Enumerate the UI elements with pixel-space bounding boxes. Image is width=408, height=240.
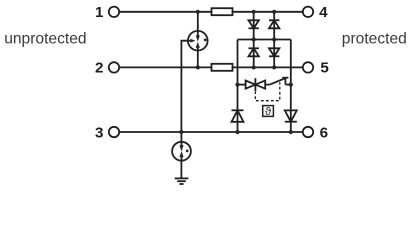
terminal 4 [303, 7, 313, 17]
diode D2 (column A lower, pointing up) [249, 48, 259, 56]
diode D1 (column A upper, pointing down) [249, 20, 259, 28]
gas discharge tube F1 (3-electrode) [188, 31, 208, 51]
resistor R1 [212, 8, 233, 15]
svg-text:6: 6 [320, 124, 328, 141]
svg-text:4: 4 [319, 4, 328, 21]
diode D4 (column B lower, pointing down) [269, 48, 279, 56]
wire diode column B (vertical) [273, 12, 275, 68]
terminal 1 [109, 7, 119, 17]
wire left rail to suppressor V1 [238, 84, 246, 86]
wire row 1 (terminal 1 to terminal 4) [119, 11, 303, 13]
svg-text:unprotected: unprotected [4, 30, 86, 47]
junction row3/F2 [179, 130, 183, 134]
svg-text:5: 5 [320, 60, 329, 77]
thermal element box [263, 106, 274, 117]
gas discharge tube F2 (2-electrode) [172, 142, 191, 161]
svg-text:1: 1 [95, 4, 104, 21]
resistor R2 [212, 64, 233, 71]
wire row 3 (terminal 3 to terminal 6) [119, 131, 303, 133]
junction row2/column A [252, 65, 256, 69]
svg-text:2: 2 [95, 60, 103, 77]
svg-text:ϑ: ϑ [265, 106, 271, 118]
junction row1/column A [252, 10, 256, 14]
wire left rail (mid bar to row 3) [237, 40, 239, 133]
junction mid bar/column B [272, 37, 276, 41]
mechanical linkage (dashed) [255, 82, 279, 101]
wire right rail (mid bar to row 3) [290, 40, 292, 133]
wire gas tube F2 to ground [180, 161, 182, 178]
ground [175, 178, 189, 184]
wire middle bar node [238, 39, 291, 41]
diode D6 (right rail, pointing down) [285, 110, 297, 121]
junction mid bar/column A [252, 37, 256, 41]
junction right rail/S1 [289, 83, 293, 87]
diode D3 (column B upper, pointing up) [269, 20, 279, 28]
wire row 2 (terminal 2 to terminal 5) [119, 66, 303, 68]
svg-text:3: 3 [95, 124, 103, 141]
wire row 1 to gas tube F1 top [197, 12, 199, 31]
terminal 6 [303, 127, 313, 137]
wire gas tube F1 bottom to row 2 [197, 51, 199, 68]
junction row2/F1 [196, 65, 200, 69]
terminal 3 [109, 127, 119, 137]
junction row1/column B [272, 10, 276, 14]
junction row3/right rail [289, 130, 293, 134]
junction row1/F1 [196, 10, 200, 14]
thermal disconnect switch S1 [265, 78, 291, 85]
junction row3/left rail [235, 130, 239, 134]
terminal 2 [109, 62, 119, 72]
bidirectional suppressor V1 (two triangles) [246, 78, 266, 91]
wire row 3 to gas tube F2 [180, 132, 182, 142]
wire F1 third electrode down to row 3 [181, 41, 188, 132]
svg-text:protected: protected [342, 30, 407, 47]
junction row2/column B [272, 65, 276, 69]
terminal 5 [303, 62, 313, 72]
junction left rail/V1 [235, 83, 239, 87]
wire diode column A (vertical) [253, 12, 255, 68]
diode D5 (left rail, pointing up) [232, 110, 244, 122]
